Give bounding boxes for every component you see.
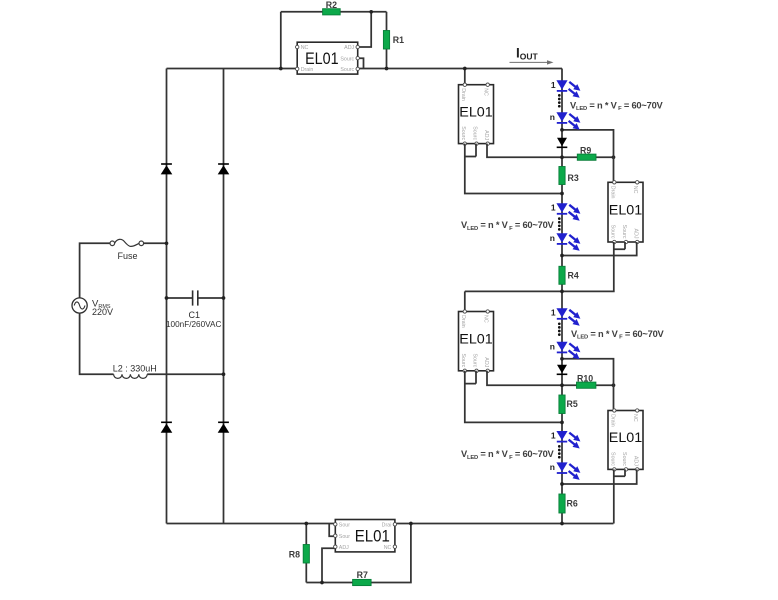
junction node B3 [560,383,564,387]
svg-text:Drain: Drain [460,88,466,101]
svg-text:ADJ: ADJ [483,357,489,367]
svg-text:100nF/260VAC: 100nF/260VAC [166,320,221,329]
diode D3 [161,422,173,432]
svg-text:EL01: EL01 [609,430,643,446]
junction node C2 below R4 [560,290,564,294]
wire R2 top link [280,12,282,69]
svg-text:ADJ: ADJ [339,545,349,551]
wire bottom rail [167,523,614,525]
diode D1 [161,164,173,174]
wire U6 ADJ link [322,548,335,582]
wire AC source to fuse [80,243,111,298]
wire inductor to right rail [147,373,223,375]
junction source node C1 [560,192,564,196]
wire U3 source jog [614,242,625,249]
inductor L2 [113,363,157,378]
IC U2 EL01 [459,83,494,145]
label IOUT [510,46,554,65]
resistor R3 [559,167,579,185]
resistor R4 [559,266,579,284]
svg-text:Fuse: Fuse [118,251,138,261]
svg-text:R3: R3 [568,173,579,183]
svg-text:R8: R8 [289,550,300,560]
junction C1 / left rail [165,296,169,300]
junction U2 drain / top rail [463,67,467,71]
ellipsis dots [558,94,561,107]
resistor R8 [289,545,310,564]
wire U2 ADJ to R9 rail [487,144,614,158]
svg-text:Drain: Drain [609,186,615,199]
junction C1 / right rail [222,296,226,300]
svg-text:Sourc: Sourc [340,56,354,62]
junction fuse / left rail [165,241,169,245]
svg-text:Sourc: Sourc [472,353,478,367]
svg-text:n: n [550,233,555,243]
svg-text:1: 1 [551,308,556,318]
wire U3 source down [465,242,614,291]
wire U4 source jog [465,371,476,384]
diode D4 [218,422,230,432]
wire U5 ADJ to node [562,469,637,484]
ellipsis dots [558,217,561,230]
junction node B1 [560,155,564,159]
svg-text:EL01: EL01 [355,527,390,546]
resistor R7 [353,570,372,586]
wire ADJ to R2 rail [358,12,372,47]
junction ADJ / R7 rail [320,581,324,585]
IC U5 EL01 [608,409,643,471]
svg-text:C1: C1 [189,310,201,320]
ellipsis dots [558,445,561,459]
svg-text:R7: R7 [357,570,368,580]
svg-text:ADJ: ADJ [344,45,354,51]
svg-text:R9: R9 [580,145,591,155]
resistor R2 [323,0,341,15]
svg-text:Sourc: Sourc [621,225,627,239]
LED LED (string4 #n) [556,462,580,480]
svg-text:220V: 220V [92,307,113,317]
svg-text:R4: R4 [568,271,579,281]
junction R7 riser / bottom rail [409,522,413,526]
svg-text:Sourc: Sourc [460,353,466,367]
junction node A1 [560,128,564,132]
svg-text:NC: NC [384,545,392,551]
wire left bridge rail [166,69,168,524]
svg-text:R5: R5 [567,399,578,409]
junction R8 / bottom rail [304,522,308,526]
capacitor C1 [166,290,224,328]
svg-text:NC: NC [483,88,489,96]
LED LED (string2 #1) [556,203,580,221]
svg-text:Sourc: Sourc [609,452,615,466]
svg-text:NC: NC [632,186,638,194]
svg-text:NC: NC [301,45,309,51]
junction ADJ riser / R2 rail [369,10,373,14]
wire U4 ADJ to R10 rail [487,371,614,385]
wire U2 drain riser [464,69,466,85]
svg-text:EL01: EL01 [459,331,493,347]
svg-text:R1: R1 [393,35,404,45]
wire U3 ADJ to node [562,242,637,256]
svg-text:n: n [550,112,555,122]
svg-text:EL01: EL01 [459,104,493,120]
IC U3 EL01 [608,181,643,244]
wire U4 source down [465,371,562,423]
svg-text:Drain: Drain [609,414,615,427]
svg-text:R2: R2 [326,0,337,10]
diode D2 [218,164,230,174]
fuse F1 [110,239,144,261]
junction R1 / top rail [385,67,389,71]
svg-text:Sourc: Sourc [621,452,627,466]
svg-text:R6: R6 [567,499,578,509]
LED LEDn (string1 #n) [556,112,580,130]
resistor R1 link upper [386,12,388,31]
junction R10 / link column [612,383,616,387]
wire U2 source jog [465,144,476,157]
wire source jog U6 [329,524,335,537]
svg-text:ADJ: ADJ [632,228,638,238]
svg-text:R10: R10 [577,373,593,383]
diode D5 [557,138,568,148]
LED LED (string3 #n) [556,342,580,360]
svg-text:1: 1 [551,203,556,213]
junction node A3 [560,357,564,361]
ellipsis dots [558,322,561,336]
svg-text:L2 : 330uH: L2 : 330uH [113,363,157,373]
wire R8 drop [305,524,307,583]
svg-text:EL01: EL01 [305,49,339,68]
wire LED string column [561,69,563,524]
junction node between string2 and R4 [560,254,564,258]
junction node between string4 and R6 [560,482,564,486]
wire node A1 to U3 drain [562,130,614,182]
wire U2 source down [465,144,562,194]
wire U4 drain riser [464,291,466,311]
wire fuse to left rail [144,242,167,244]
svg-text:Drain: Drain [460,315,466,328]
IC U4 EL01 [459,310,494,373]
svg-text:EL01: EL01 [609,202,643,218]
svg-text:1: 1 [551,80,556,90]
LED LED (string4 #1) [556,431,580,449]
junction R2 link / top rail [279,67,283,71]
LED LED1 (string1 #1) [556,80,580,98]
wire U5 source down [613,469,615,523]
svg-text:Sourc: Sourc [472,126,478,140]
svg-text:Sourc: Sourc [340,67,354,73]
svg-text:Sour: Sour [339,523,350,529]
svg-text:NC: NC [483,315,489,323]
svg-text:Sourc: Sourc [609,225,615,239]
wire right bridge rail [223,69,225,524]
IC U1 EL01 [296,42,360,74]
resistor R6 [559,494,578,513]
svg-text:Sourc: Sourc [460,126,466,140]
svg-text:n: n [550,341,555,351]
svg-text:Sour: Sour [339,534,350,540]
wire R2 rail [281,11,387,13]
junction R6 / bottom rail [560,522,564,526]
resistor R5 [559,395,578,414]
junction R9 / link column [612,155,616,159]
resistor R1 [383,31,404,50]
wire U5 source jog [614,469,625,476]
resistor R10 [577,373,596,388]
resistor R9 [577,145,596,160]
svg-text:1: 1 [551,431,556,441]
LED LED (string3 #1) [556,308,580,326]
svg-text:n: n [550,462,555,472]
wire node A3 to U5 drain [562,359,614,411]
svg-text:Drain: Drain [301,67,314,73]
junction source node C3 [560,421,564,425]
wire R1 to top rail [386,31,388,69]
junction inductor / right rail [222,372,226,376]
AC source V1 [72,298,113,317]
diode D6 [557,365,568,375]
wire AC source to inductor [80,313,114,374]
wire top rail [167,68,563,70]
LED LED (string2 #n) [556,233,580,251]
svg-text:ADJ: ADJ [483,130,489,140]
svg-text:NC: NC [632,414,638,422]
svg-text:Drai: Drai [382,523,392,529]
IC U6 EL01 [334,520,397,552]
wire R7 rail [306,524,411,583]
svg-text:ADJ: ADJ [632,456,638,466]
wire source jog U1 [358,58,364,68]
